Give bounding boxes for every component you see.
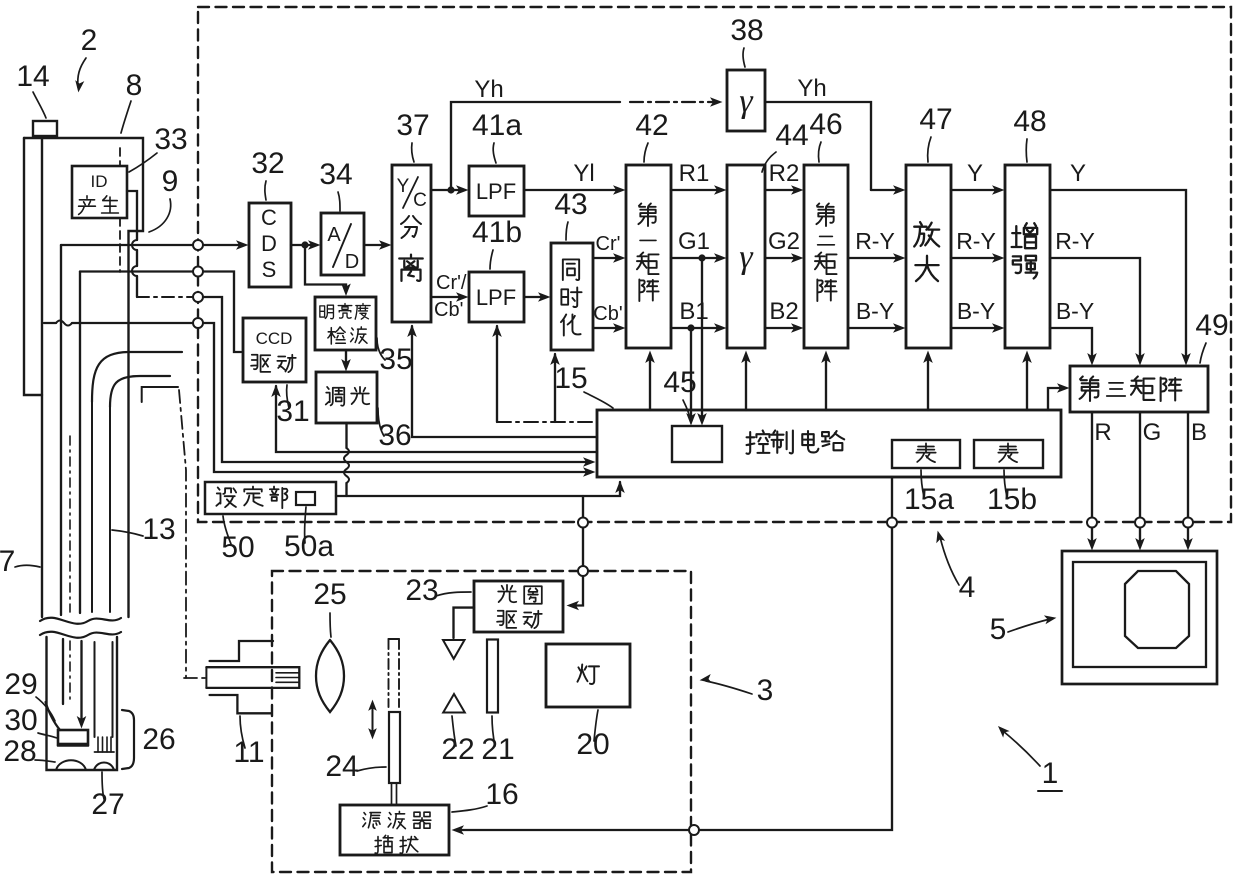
Cb' wire to first matrix — [593, 327, 620, 329]
svg-text:44: 44 — [775, 119, 808, 152]
svg-text:14: 14 — [16, 60, 49, 93]
svg-text:3: 3 — [757, 674, 774, 707]
svg-text:G: G — [1143, 419, 1162, 446]
ID signal wire 9 — [127, 191, 137, 240]
svg-text:30: 30 — [4, 704, 37, 737]
gamma block 38 — [727, 70, 765, 131]
enhancer block 48 — [1005, 165, 1050, 348]
svg-text:Yh: Yh — [797, 75, 826, 102]
aperture drive block 23 — [474, 581, 563, 632]
universal cord curve inner — [110, 376, 170, 407]
svg-text:LPF: LPF — [476, 285, 516, 310]
wire A/D to Y/C — [364, 244, 386, 246]
monitor 5 outer — [1062, 551, 1217, 684]
table block 15b — [974, 440, 1043, 468]
svg-text:27: 27 — [91, 788, 124, 821]
junction after CDS — [291, 244, 315, 246]
aperture control wire — [570, 496, 583, 606]
svg-text:CCD: CCD — [256, 329, 293, 348]
insertion tube left edge — [41, 138, 43, 617]
svg-text:G2: G2 — [768, 228, 800, 255]
main video wire from scope to CDS — [61, 244, 243, 246]
svg-text:15: 15 — [554, 362, 587, 395]
svg-text:21: 21 — [481, 733, 514, 766]
R2 wire — [765, 189, 798, 191]
svg-text:Y: Y — [967, 160, 983, 187]
Y output wire to third matrix — [1050, 190, 1186, 360]
aux wire row 4 — [44, 322, 56, 324]
svg-text:38: 38 — [730, 14, 763, 47]
Cr' wire to first matrix — [593, 257, 620, 259]
control wire to LPF 41b — [496, 326, 498, 422]
svg-text:Y: Y — [1070, 160, 1086, 187]
filter 24 — [389, 712, 400, 783]
dimmer block 36 — [316, 372, 377, 423]
universal cord curve outer — [92, 352, 182, 402]
svg-text:11: 11 — [233, 736, 264, 769]
svg-text:Cb': Cb' — [434, 299, 463, 321]
control bus to left blocks — [497, 421, 597, 423]
brightness branch wire — [305, 245, 346, 290]
svg-text:R-Y: R-Y — [855, 228, 895, 254]
svg-text:42: 42 — [635, 109, 668, 142]
filter insert/remove block 16 — [340, 805, 449, 855]
svg-text:37: 37 — [396, 109, 429, 142]
Yh takeoff wire — [451, 102, 620, 190]
aperture drive output wire — [454, 608, 475, 638]
Yh wire from gamma to amplifier — [765, 102, 871, 190]
wire control to CCD driver — [276, 386, 597, 452]
svg-text:A: A — [327, 224, 341, 246]
svg-text:22: 22 — [441, 733, 474, 766]
svg-text:ID: ID — [91, 172, 108, 191]
svg-text:B: B — [1191, 419, 1207, 446]
gamma block 44 — [727, 165, 765, 348]
brightness detector block 35 — [315, 297, 376, 350]
svg-text:R1: R1 — [679, 160, 710, 187]
svg-text:45: 45 — [663, 366, 696, 399]
control wire to enhancer — [1026, 356, 1028, 410]
G wire to monitor — [1139, 412, 1141, 545]
svg-text:8: 8 — [126, 69, 143, 102]
svg-text:34: 34 — [319, 158, 352, 191]
CCD chip 30 — [58, 730, 88, 744]
chroma out of Y/C — [431, 296, 463, 298]
control wire to synchronizer — [554, 354, 556, 422]
svg-text:Yl: Yl — [573, 160, 594, 187]
svg-text:D: D — [261, 231, 277, 256]
wire control to filter unit — [455, 477, 892, 830]
svg-text:Y: Y — [397, 176, 410, 197]
svg-text:Cr': Cr' — [596, 233, 621, 255]
CCD signal wire b with arrow into CCD 30 — [79, 272, 81, 614]
third matrix block 49 — [1070, 366, 1208, 412]
control wire to amplifier — [927, 356, 929, 410]
setting unit block 50 — [205, 482, 336, 514]
plug teeth — [276, 672, 299, 674]
B2 wire — [765, 327, 798, 329]
R-Y output wire to third matrix — [1050, 258, 1140, 360]
insertion tube 7 lower — [47, 637, 118, 770]
svg-text:B2: B2 — [769, 298, 798, 325]
light guide exit arc 27 — [94, 763, 114, 771]
light guide 13 line a — [91, 400, 93, 612]
G2 wire — [765, 257, 798, 259]
setting key 50a — [296, 492, 315, 505]
A/D block 34 — [321, 213, 364, 275]
filter raised position (phantom) — [388, 639, 390, 707]
svg-text:4: 4 — [959, 571, 976, 604]
control wire to third matrix — [1048, 388, 1064, 410]
CDS block 32 — [249, 203, 291, 287]
svg-text:46: 46 — [809, 108, 842, 141]
sub block 45 — [672, 426, 722, 462]
light source dashed enclosure 3 — [272, 571, 691, 872]
svg-text:48: 48 — [1013, 105, 1046, 138]
control wire to second matrix — [825, 356, 827, 410]
svg-text:25: 25 — [313, 578, 346, 611]
Yl wire — [524, 189, 620, 191]
amplifier block 47 — [906, 165, 951, 348]
svg-text:15a: 15a — [904, 483, 954, 516]
Y/C luminance out junction — [431, 189, 463, 191]
tube break wave — [40, 618, 121, 624]
monitor screen — [1073, 562, 1206, 667]
control wire to Y/C separator — [412, 330, 597, 437]
svg-text:9: 9 — [162, 165, 179, 198]
svg-text:D: D — [345, 251, 359, 273]
filter motion arrow — [372, 705, 374, 734]
B-Y wire 47 to 48 — [951, 327, 999, 329]
svg-text:Yh: Yh — [474, 76, 503, 103]
svg-text:13: 13 — [142, 513, 175, 546]
svg-text:Cb': Cb' — [593, 303, 622, 325]
svg-text:47: 47 — [919, 103, 952, 136]
wire brightness to dimmer — [345, 350, 347, 366]
svg-text:41a: 41a — [472, 109, 522, 142]
B1 feedback wire into 45 — [690, 328, 692, 420]
svg-text:B1: B1 — [679, 298, 708, 325]
svg-text:28: 28 — [3, 735, 36, 768]
svg-text:23: 23 — [405, 574, 438, 607]
svg-text:2: 2 — [81, 24, 98, 57]
lamp block 20 — [546, 644, 630, 707]
cord corner detail — [142, 387, 178, 402]
condenser lens 25 — [316, 640, 344, 712]
ID wire to control circuit — [203, 297, 588, 462]
svg-text:B-Y: B-Y — [856, 298, 894, 324]
aperture plate 21 — [487, 640, 498, 713]
lens cover arc 28 — [56, 760, 86, 770]
svg-text:R-Y: R-Y — [1055, 228, 1095, 254]
table block 15a — [892, 440, 960, 468]
open arrow down 22a — [443, 640, 465, 659]
first matrix block 42 — [626, 165, 671, 348]
svg-text:15b: 15b — [987, 483, 1037, 516]
ID generator 33 — [72, 166, 127, 218]
B-Y output wire to third matrix — [1050, 328, 1092, 360]
internal dashed cable in body — [119, 148, 121, 166]
svg-text:29: 29 — [4, 668, 37, 701]
svg-text:5: 5 — [990, 613, 1007, 646]
svg-text:G1: G1 — [678, 228, 710, 255]
svg-text:50: 50 — [221, 531, 254, 564]
svg-text:C: C — [413, 190, 427, 211]
setting unit wire to control circuit — [336, 482, 620, 496]
svg-text:20: 20 — [576, 728, 609, 761]
svg-text:31: 31 — [276, 395, 309, 428]
light guide plug 11 — [210, 641, 273, 661]
svg-text:41b: 41b — [472, 216, 522, 249]
objective window 29 — [46, 702, 61, 730]
control wire to first matrix — [649, 356, 651, 410]
svg-text:γ: γ — [739, 83, 754, 120]
control circuit block 15 — [597, 410, 1061, 477]
R1 wire — [671, 189, 721, 191]
connector node drive wire — [193, 267, 203, 277]
B-Y wire 46 to 47 — [848, 327, 900, 329]
svg-text:1: 1 — [1042, 757, 1059, 790]
open arrow up 22 — [443, 694, 465, 713]
second matrix block 46 — [804, 165, 848, 348]
endoscope connector body 8 — [24, 138, 143, 617]
B1 wire with junction — [671, 327, 721, 329]
svg-text:S: S — [262, 257, 277, 282]
bend sheath bracket 26 — [122, 710, 134, 769]
G1 feedback wire into 45 — [701, 258, 703, 420]
svg-text:γ: γ — [739, 239, 754, 276]
CCD signal wire a — [60, 245, 62, 615]
svg-text:24: 24 — [325, 750, 358, 783]
svg-text:Cr'/: Cr'/ — [436, 272, 467, 294]
R-Y wire 46 to 47 — [848, 257, 900, 259]
Y/C separation block 37 — [392, 165, 431, 322]
connector node aux wire — [193, 318, 203, 328]
G1 wire with junction — [671, 257, 721, 259]
LPF block 41a — [469, 166, 524, 216]
drive wire scope row — [80, 272, 241, 353]
fiber end hatching — [97, 737, 99, 752]
svg-text:R: R — [1094, 419, 1111, 446]
monitor CRT octagon — [1125, 571, 1189, 648]
svg-text:7: 7 — [0, 545, 15, 578]
connector node on main wire — [193, 240, 203, 250]
svg-text:43: 43 — [554, 188, 587, 221]
tube axis dash-dot upper — [69, 436, 71, 612]
light guide axis dash-dot — [179, 390, 186, 678]
contact 14 — [33, 121, 57, 136]
LPF block 41b — [469, 272, 524, 322]
svg-text:LPF: LPF — [476, 179, 516, 204]
CCD driver block 31 — [243, 318, 306, 382]
synchronizer block 43 — [551, 243, 593, 350]
Y wire 47 to 48 — [951, 189, 999, 191]
svg-text:16: 16 — [485, 778, 518, 811]
processor dashed enclosure 4 — [198, 7, 1231, 522]
B wire to monitor — [1187, 412, 1189, 545]
R-Y wire 47 to 48 — [951, 257, 999, 259]
svg-text:33: 33 — [154, 123, 187, 156]
wire LPF to synchronizer — [524, 296, 545, 298]
svg-text:C: C — [261, 205, 277, 230]
dimmer output wire — [345, 423, 347, 448]
svg-text:50a: 50a — [284, 530, 334, 563]
svg-text:26: 26 — [142, 723, 175, 756]
svg-text:B-Y: B-Y — [1056, 298, 1094, 324]
svg-text:B-Y: B-Y — [957, 298, 995, 324]
R wire to monitor — [1091, 412, 1093, 545]
svg-text:49: 49 — [1195, 309, 1228, 342]
connector node ID wire — [193, 292, 203, 302]
svg-text:R2: R2 — [769, 160, 800, 187]
svg-text:R-Y: R-Y — [956, 228, 996, 254]
light guide 13 line b — [109, 405, 111, 612]
control wire to gamma 44 — [745, 356, 747, 410]
svg-text:32: 32 — [251, 147, 284, 180]
